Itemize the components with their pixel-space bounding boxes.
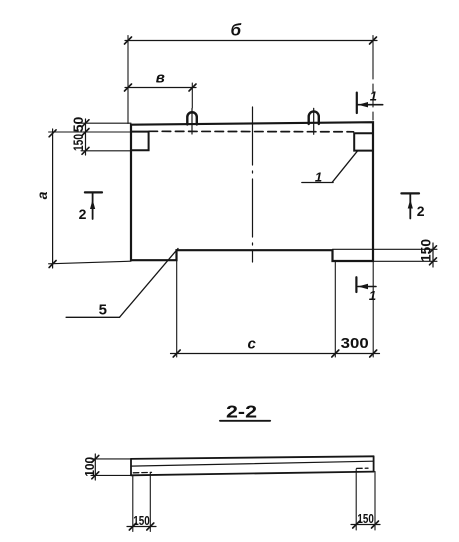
bottom-right 150 dim line bbox=[351, 524, 380, 526]
section marker 1 bottom arrow line bbox=[358, 286, 376, 288]
section bar bottom line bbox=[131, 472, 374, 476]
title underline bbox=[220, 420, 270, 422]
б extension left bbox=[127, 36, 129, 124]
right 150 extension bottom bbox=[373, 260, 437, 262]
а bottom extension bbox=[49, 261, 131, 264]
left 50/150 extension top bbox=[81, 122, 131, 124]
section marker 1 bottom arrowhead bbox=[358, 284, 368, 289]
svg-text:150: 150 bbox=[418, 239, 434, 262]
panel outline (main view) bbox=[131, 122, 373, 261]
bottom-left 150 extension b bbox=[149, 473, 151, 532]
а tick bottom bbox=[49, 261, 56, 268]
loop left axis bbox=[191, 109, 193, 135]
lifting loop right bbox=[309, 111, 319, 124]
bottom-right 150 tick a bbox=[353, 521, 360, 528]
dimension а line bbox=[52, 129, 54, 268]
section bar dashed insert right bbox=[357, 467, 368, 469]
svg-text:150: 150 bbox=[357, 511, 374, 526]
notch top-right bbox=[354, 133, 373, 150]
с/300 dimension line bbox=[171, 353, 380, 355]
panel center line bbox=[252, 107, 254, 262]
а tick top bbox=[49, 130, 56, 137]
bottom-right 150 extension a bbox=[355, 469, 357, 530]
svg-text:2: 2 bbox=[417, 203, 425, 219]
tick 50 top bbox=[82, 120, 89, 127]
tick 150 bottom bbox=[82, 147, 89, 154]
dimension в line bbox=[125, 87, 196, 89]
100 dim line bbox=[94, 454, 96, 480]
section bar inner line bbox=[131, 461, 374, 466]
right 150 tick bottom bbox=[430, 258, 437, 265]
с tick left bbox=[173, 350, 180, 357]
svg-text:50: 50 bbox=[70, 117, 86, 133]
с tick middle bbox=[332, 350, 339, 357]
б tick left bbox=[125, 37, 132, 44]
б extension right dashed part bbox=[372, 70, 374, 120]
leader 5 underline bbox=[66, 316, 119, 318]
section marker 2 right pole bbox=[409, 193, 411, 218]
svg-text:300: 300 bbox=[341, 335, 369, 352]
svg-text:2: 2 bbox=[79, 206, 87, 222]
с/300 extension left bbox=[176, 250, 178, 357]
100 tick top bbox=[92, 455, 99, 462]
svg-text:в: в bbox=[156, 70, 165, 87]
section marker 2 right T-bar bbox=[401, 192, 419, 194]
left 50/150 extension bottom bbox=[81, 150, 131, 152]
в tick right bbox=[189, 84, 196, 91]
dimension б line bbox=[125, 40, 377, 42]
leader 5 diagonal bbox=[120, 249, 179, 318]
section marker 2 left pole bbox=[92, 192, 94, 219]
bottom-right 150 extension b bbox=[374, 472, 376, 530]
right 150 extension top bbox=[333, 248, 438, 250]
section bar right edge bbox=[373, 456, 375, 471]
в tick left bbox=[125, 84, 132, 91]
bottom-left 150 extension a bbox=[132, 476, 134, 532]
left dim line 50/150 bbox=[85, 119, 87, 155]
svg-text:а: а bbox=[34, 191, 50, 199]
lifting loop left bbox=[187, 112, 197, 124]
100 extension bottom bbox=[91, 474, 131, 476]
tick 50/150 mid bbox=[82, 129, 89, 136]
svg-text:150: 150 bbox=[133, 513, 150, 528]
100 tick bottom bbox=[92, 472, 99, 479]
svg-text:2-2: 2-2 bbox=[226, 402, 257, 422]
в extension right bbox=[191, 83, 193, 108]
100 extension top bbox=[91, 458, 131, 460]
leader 1 diagonal (top-right notch) bbox=[332, 151, 357, 183]
section marker 2 left arrowhead bbox=[90, 200, 95, 210]
с/300 extension right bbox=[372, 261, 374, 357]
б tick right bbox=[370, 37, 377, 44]
section bar top line bbox=[131, 456, 374, 459]
right 150 dim line bbox=[432, 243, 434, 267]
section marker 2 right arrowhead bbox=[408, 200, 413, 209]
hidden dashed line under top edge bbox=[149, 130, 354, 133]
section marker 2 left T-bar bbox=[85, 191, 102, 193]
section marker 1 top arrow line bbox=[358, 104, 383, 106]
bottom-left 150 tick a bbox=[129, 523, 136, 530]
bottom-left 150 tick b bbox=[147, 523, 154, 530]
right 150 tick top bbox=[430, 246, 437, 253]
с tick right bbox=[370, 350, 377, 357]
notch top-left bbox=[131, 132, 149, 151]
svg-text:1: 1 bbox=[369, 288, 376, 303]
loop right axis bbox=[313, 108, 315, 134]
left 50/150 extension middle bbox=[49, 131, 131, 133]
svg-text:150: 150 bbox=[70, 134, 86, 151]
svg-text:100: 100 bbox=[82, 457, 97, 477]
svg-text:5: 5 bbox=[99, 302, 107, 319]
bottom-left 150 dim line bbox=[127, 526, 156, 528]
section bar left edge bbox=[130, 459, 132, 475]
section marker 1 top pole bbox=[356, 93, 358, 113]
svg-text:1: 1 bbox=[315, 169, 322, 184]
б extension right bbox=[372, 36, 374, 71]
section bar dashed insert left bbox=[133, 471, 151, 473]
section marker 1 top arrowhead bbox=[358, 102, 368, 107]
svg-text:б: б bbox=[231, 21, 242, 40]
svg-text:1: 1 bbox=[370, 89, 377, 104]
leader 1 underline bbox=[302, 182, 333, 184]
section marker 1 bottom pole bbox=[355, 277, 357, 292]
с/300 extension middle bbox=[334, 261, 336, 357]
svg-text:с: с bbox=[248, 336, 257, 353]
bottom-right 150 tick b bbox=[372, 521, 379, 528]
